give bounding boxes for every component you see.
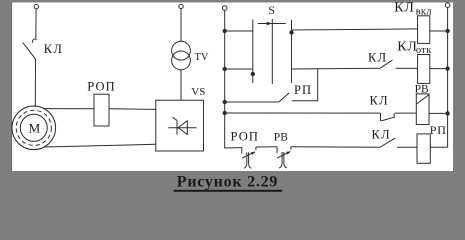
label KL (rung 4) — [372, 127, 391, 141]
label KL (left power switch) — [44, 42, 63, 56]
svg-text:S: S — [268, 3, 275, 17]
label RP (coil) — [430, 123, 447, 137]
svg-text:РП: РП — [294, 83, 312, 97]
label RV (bottom contact) — [274, 131, 288, 143]
coil KLvkl box — [418, 16, 430, 44]
wire: coil KLvkl to right rail — [430, 29, 450, 32]
label S — [268, 3, 275, 17]
wire: rung 3 (rail to contact KL) — [223, 111, 381, 114]
svg-text:КЛ: КЛ — [370, 93, 389, 107]
svg-text:РП: РП — [430, 123, 447, 137]
svg-text:КЛ: КЛ — [397, 39, 417, 54]
wire: switch KL to motor M — [34, 59, 36, 107]
terminal T1 (left supply) — [34, 4, 38, 8]
svg-text:РВ: РВ — [415, 84, 429, 96]
wire: T2 to transformer TV — [180, 9, 182, 42]
label RV (coil) — [415, 84, 429, 96]
rectifier VS box — [156, 100, 204, 151]
switch S plate B — [290, 20, 293, 83]
svg-text:вкл: вкл — [416, 6, 432, 17]
svg-text:КЛ: КЛ — [44, 42, 63, 56]
wire: motor to VS box (bottom armature wire) — [44, 144, 156, 147]
contact RV (bottom rung) plunger release — [277, 147, 291, 168]
label KL (rung 3) — [370, 93, 389, 107]
switch S actuating arrow — [258, 22, 286, 25]
svg-text:РВ: РВ — [274, 131, 288, 143]
wire: TV to VS box — [180, 70, 182, 100]
wire: control right rail — [447, 8, 449, 148]
resistor ROP box — [94, 94, 109, 126]
motor M outer circle — [12, 106, 56, 150]
coil RV box with time-delay diagonal — [416, 94, 429, 125]
wire: coil RV to right rail — [429, 112, 449, 115]
svg-text:КЛ: КЛ — [394, 1, 414, 16]
wire: T1 to switch KL fixed contact — [35, 9, 37, 39]
wire: contact KL to coil KLotk — [396, 67, 418, 69]
svg-text:РОП: РОП — [231, 129, 259, 143]
wire: rung 1 (plate B to coil KLvkl) — [292, 29, 418, 30]
transformer TV secondary winding — [172, 51, 191, 70]
wire: rung 2 (plate B to contact KL) — [292, 67, 381, 70]
transformer TV primary winding — [172, 41, 191, 60]
svg-text:КЛ: КЛ — [368, 50, 387, 64]
wire: motor to ROP resistor (top armature wire) — [43, 108, 94, 110]
wire: coil RP to right rail — [430, 146, 447, 148]
terminal T2 (TV supply) — [179, 4, 183, 8]
switch KL blade — [23, 43, 36, 60]
caption underline — [174, 190, 283, 192]
contact KL (rung 4) blade — [380, 138, 395, 147]
label KL (rung 2) — [368, 50, 387, 64]
wire: contact RV to contact KL (bottom rung) — [291, 146, 380, 149]
label VS — [191, 86, 205, 98]
motor M dashed circle — [16, 110, 51, 145]
terminal T3 (control left rail) — [222, 6, 227, 11]
label ROP (resistor) — [87, 79, 115, 93]
contact KL (rung 3, closed style) — [381, 113, 395, 121]
wire: contact ROP to contact RV — [256, 146, 277, 148]
wire: ROP to VS box — [109, 108, 156, 111]
terminal T4 (control right rail) — [445, 3, 450, 8]
wire: control left rail — [225, 10, 242, 148]
wire: coil KLotk to right rail — [430, 67, 450, 70]
svg-text:КЛ: КЛ — [372, 127, 391, 141]
switch S plate A — [251, 20, 254, 84]
coil KLotk box — [418, 55, 430, 84]
caption: Rysunok 2.29 — [177, 174, 278, 191]
svg-text:отк: отк — [416, 45, 432, 56]
label TV — [195, 52, 209, 63]
motor M inner circle — [20, 114, 47, 141]
thyristor symbol inside VS — [168, 117, 196, 134]
node: rail to plate A upper wire — [223, 29, 253, 32]
switch S movable rod — [271, 19, 273, 84]
contact RP blade — [279, 93, 289, 102]
svg-text:VS: VS — [191, 86, 205, 98]
label ROP (bottom contact) — [231, 129, 259, 143]
wire: contact KL to coil RV — [395, 112, 416, 114]
svg-text:TV: TV — [195, 52, 209, 63]
white drawing canvas — [11, 3, 453, 172]
switch KL fixed-contact hook — [33, 39, 37, 43]
label KLvkl — [394, 1, 432, 18]
svg-text:Рисунок 2.29: Рисунок 2.29 — [177, 174, 278, 191]
wire: contact KL to coil RP — [397, 146, 417, 148]
label KLotk — [397, 39, 432, 56]
wire: contact RP up to rung 2 — [292, 69, 318, 101]
svg-text:М: М — [29, 120, 41, 135]
label M (motor) — [29, 120, 41, 135]
contact ROP (bottom rung) plunger release — [242, 147, 256, 168]
contact KL (rung 2) blade — [380, 60, 393, 68]
wire: RP branch from rail — [223, 100, 279, 103]
coil RP box — [417, 134, 430, 163]
label RP (branch) — [294, 83, 312, 97]
node: rail to plate A lower wire — [223, 67, 253, 70]
svg-text:РОП: РОП — [87, 79, 115, 93]
